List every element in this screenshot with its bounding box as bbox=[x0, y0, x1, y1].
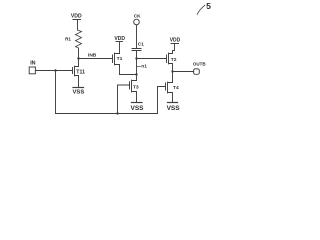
resistor R1 bbox=[76, 30, 82, 48]
wire T3 source to VSS bbox=[136, 92, 138, 103]
svg-text:T11: T11 bbox=[76, 70, 85, 76]
svg-text:C1: C1 bbox=[138, 42, 144, 48]
wire CK to capacitor C1 bbox=[136, 25, 138, 49]
power symbol VDD (above T1) bbox=[116, 41, 123, 43]
svg-text:T1: T1 bbox=[117, 56, 123, 62]
node OUTB junction dot bbox=[171, 70, 173, 72]
transistor T2 bbox=[167, 53, 173, 64]
power symbol VDD (above R1) bbox=[73, 20, 81, 31]
ground symbol VSS (under T3) bbox=[132, 102, 143, 104]
power symbol VDD (above T2) bbox=[171, 43, 179, 45]
ground symbol VSS (under T4) bbox=[168, 102, 178, 104]
terminal OUTB circle bbox=[194, 69, 200, 74]
wire C1 bottom to node n1 column bbox=[136, 51, 138, 75]
wire T4 gate branch to bottom rail bbox=[158, 87, 166, 114]
wire T1 drain to VDD bbox=[119, 42, 121, 54]
node n1 lower junction dot bbox=[135, 73, 137, 75]
wire T4 source to VSS bbox=[172, 93, 174, 103]
transistor T1 bbox=[113, 53, 120, 65]
node n1 label leader dash bbox=[137, 66, 140, 68]
svg-text:VDD: VDD bbox=[170, 38, 181, 44]
svg-text:T2: T2 bbox=[171, 57, 177, 63]
wire node n1 to T2 gate bbox=[137, 58, 167, 60]
wire bottom rail bbox=[56, 113, 158, 115]
svg-text:IN: IN bbox=[30, 61, 35, 67]
figure numeral 5 leader line bbox=[197, 5, 205, 14]
terminal CK circle bbox=[134, 19, 140, 25]
wire node OUTB to terminal bbox=[173, 71, 194, 73]
wire R1 bottom to node INB bbox=[78, 48, 80, 58]
svg-text:VSS: VSS bbox=[167, 105, 181, 112]
terminal IN bbox=[29, 67, 35, 74]
svg-text:INB: INB bbox=[88, 53, 97, 59]
node INB junction dot bbox=[77, 57, 79, 59]
wire T3 drain up to node n1 bbox=[136, 75, 138, 81]
wire T2 source to node OUTB bbox=[172, 64, 174, 72]
wire T3 gate branch bbox=[118, 85, 130, 114]
wire T11 gate lead bbox=[35, 70, 72, 72]
svg-text:VDD: VDD bbox=[71, 14, 82, 20]
node IN junction dot bbox=[54, 69, 56, 71]
wire node INB down to T11 drain bbox=[78, 59, 80, 67]
svg-text:OUTB: OUTB bbox=[193, 62, 206, 67]
node rail junction dot bbox=[116, 112, 118, 114]
transistor T3 bbox=[130, 80, 137, 92]
wire OUTB node down to T4 drain bbox=[172, 72, 174, 83]
svg-text:T4: T4 bbox=[173, 85, 179, 91]
wire T1 source to node n1 bbox=[120, 65, 137, 75]
wire net INB to T1 gate bbox=[79, 58, 113, 60]
wire T2 drain to VDD bbox=[173, 44, 175, 54]
node n1 junction dot (on T2 gate wire) bbox=[135, 57, 137, 59]
wire IN node down to bottom rail bbox=[55, 71, 57, 114]
ground symbol VSS (under T11) bbox=[73, 87, 84, 89]
wire T11 source to VSS bbox=[78, 76, 80, 88]
svg-text:5: 5 bbox=[206, 1, 211, 11]
transistor T4 bbox=[166, 82, 173, 93]
transistor T11 bbox=[73, 66, 79, 76]
svg-text:VSS: VSS bbox=[131, 105, 145, 112]
svg-text:R1: R1 bbox=[65, 37, 71, 42]
svg-text:CK: CK bbox=[134, 14, 141, 19]
svg-text:VDD: VDD bbox=[114, 36, 125, 42]
svg-text:T3: T3 bbox=[133, 84, 139, 90]
capacitor C1 bbox=[132, 49, 141, 51]
svg-text:VSS: VSS bbox=[73, 90, 85, 96]
svg-text:n1: n1 bbox=[141, 63, 147, 69]
